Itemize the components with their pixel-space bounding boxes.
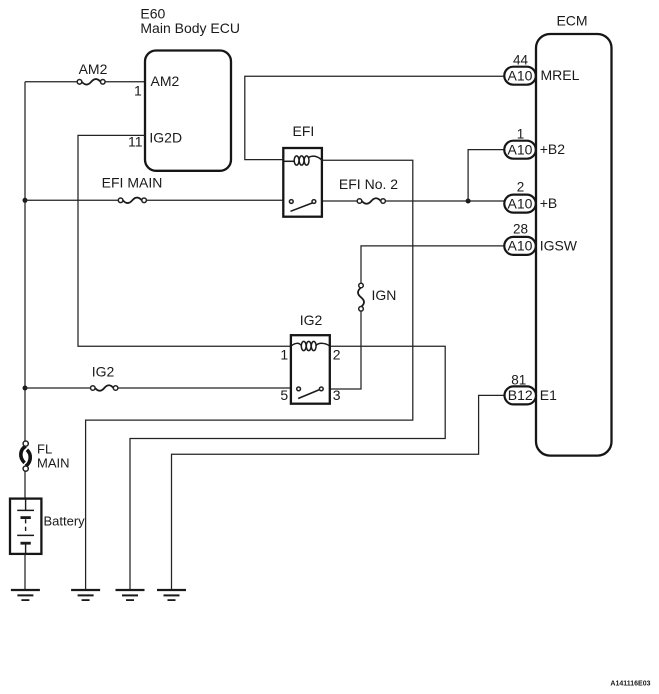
svg-text:3: 3 [333,387,341,403]
EFI relay coil [283,156,322,165]
svg-text:+B: +B [540,195,558,211]
EFI relay switch contacts [289,200,315,212]
node junction +B / +B2 [466,199,471,204]
svg-text:5: 5 [280,387,288,403]
relay EFI [283,123,322,217]
svg-text:AM2: AM2 [151,73,180,89]
relay IG2 [291,312,330,404]
ECM box [536,12,612,455]
IG2 relay switch contacts [297,387,323,399]
svg-text:IG2D: IG2D [149,129,182,145]
svg-text:IGN: IGN [372,287,397,303]
svg-text:A10: A10 [508,142,533,158]
connector A10 pin 1 +B2 [504,126,565,158]
svg-text:+B2: +B2 [540,141,566,157]
svg-text:EFI No. 2: EFI No. 2 [339,176,398,192]
wire EFI relay coil to ground G2 [86,160,413,589]
node junction EFI MAIN tap [23,198,28,203]
IG2 relay coil [291,341,330,350]
wire AM2 feed from node B+ column to E60 pin 1 [25,81,145,83]
svg-text:E1: E1 [540,387,557,403]
pin 11 IG2D of E60 [128,129,182,149]
pin 1 AM2 of E60 [134,73,179,98]
svg-text:A10: A10 [508,195,533,211]
ground G2 [71,590,100,600]
wire MREL from ECM to EFI relay coil [245,76,505,159]
svg-text:IG2: IG2 [92,364,115,380]
ground G4 [157,590,186,600]
svg-text:1: 1 [517,126,525,141]
wire EFI MAIN feed [25,199,283,201]
svg-text:Main Body ECU: Main Body ECU [140,20,240,36]
fuse IGN [358,283,396,311]
connector A10 pin 44 MREL [504,53,579,85]
fuse AM2 [77,61,107,85]
ground G1 battery [11,590,40,600]
svg-text:FL: FL [37,441,52,456]
wire IGSW from ECM through IGN fuse to IG2 pin 3 [330,246,505,389]
svg-text:A10: A10 [508,238,533,254]
ground G3 [116,590,145,600]
fusible link FL MAIN [21,441,70,471]
wire E1 from ECM to ground G4 [172,395,505,589]
connector A10 pin 28 IGSW [504,221,578,255]
connector B12 pin 81 E1 [505,373,558,405]
fuse EFI MAIN [102,175,163,204]
connector A10 pin 2 +B [504,179,557,212]
wire IG2 relay pin 2 to ground G3 [130,346,445,589]
wire battery to ground G1 [24,554,26,590]
svg-text:IG2: IG2 [300,312,323,328]
svg-text:MREL: MREL [541,67,580,83]
svg-text:2: 2 [517,179,525,194]
svg-text:IGSW: IGSW [540,237,578,253]
battery [10,499,85,554]
svg-text:28: 28 [513,221,528,236]
svg-text:EFI MAIN: EFI MAIN [102,175,163,191]
svg-text:81: 81 [511,373,526,388]
fuse IG2 [91,364,118,391]
svg-text:2: 2 [333,347,341,363]
node junction IG2 tap [23,386,28,391]
svg-text:44: 44 [513,53,529,68]
svg-text:A141116E03: A141116E03 [610,680,650,687]
fuse EFI No. 2 [339,176,398,204]
svg-text:ECM: ECM [556,12,587,28]
svg-text:EFI: EFI [293,123,315,139]
svg-text:MAIN: MAIN [37,455,70,470]
wire +B2 branch [468,150,504,201]
svg-text:1: 1 [280,347,288,363]
svg-text:A10: A10 [508,68,533,84]
svg-text:Battery: Battery [44,513,86,528]
IG2 relay pin numbers 1 2 5 3 [280,347,340,404]
svg-text:1: 1 [134,82,142,98]
wire IG2 fuse feed to IG2 relay pin 5 [25,387,291,389]
wire IG2D to IG2 relay coil pin 1 [78,135,291,346]
wire EFI relay switch output to +B [322,200,504,202]
wire left battery column [24,82,26,499]
svg-text:B12: B12 [508,387,533,403]
svg-text:AM2: AM2 [79,61,108,77]
E60 Main Body ECU box [140,5,240,170]
